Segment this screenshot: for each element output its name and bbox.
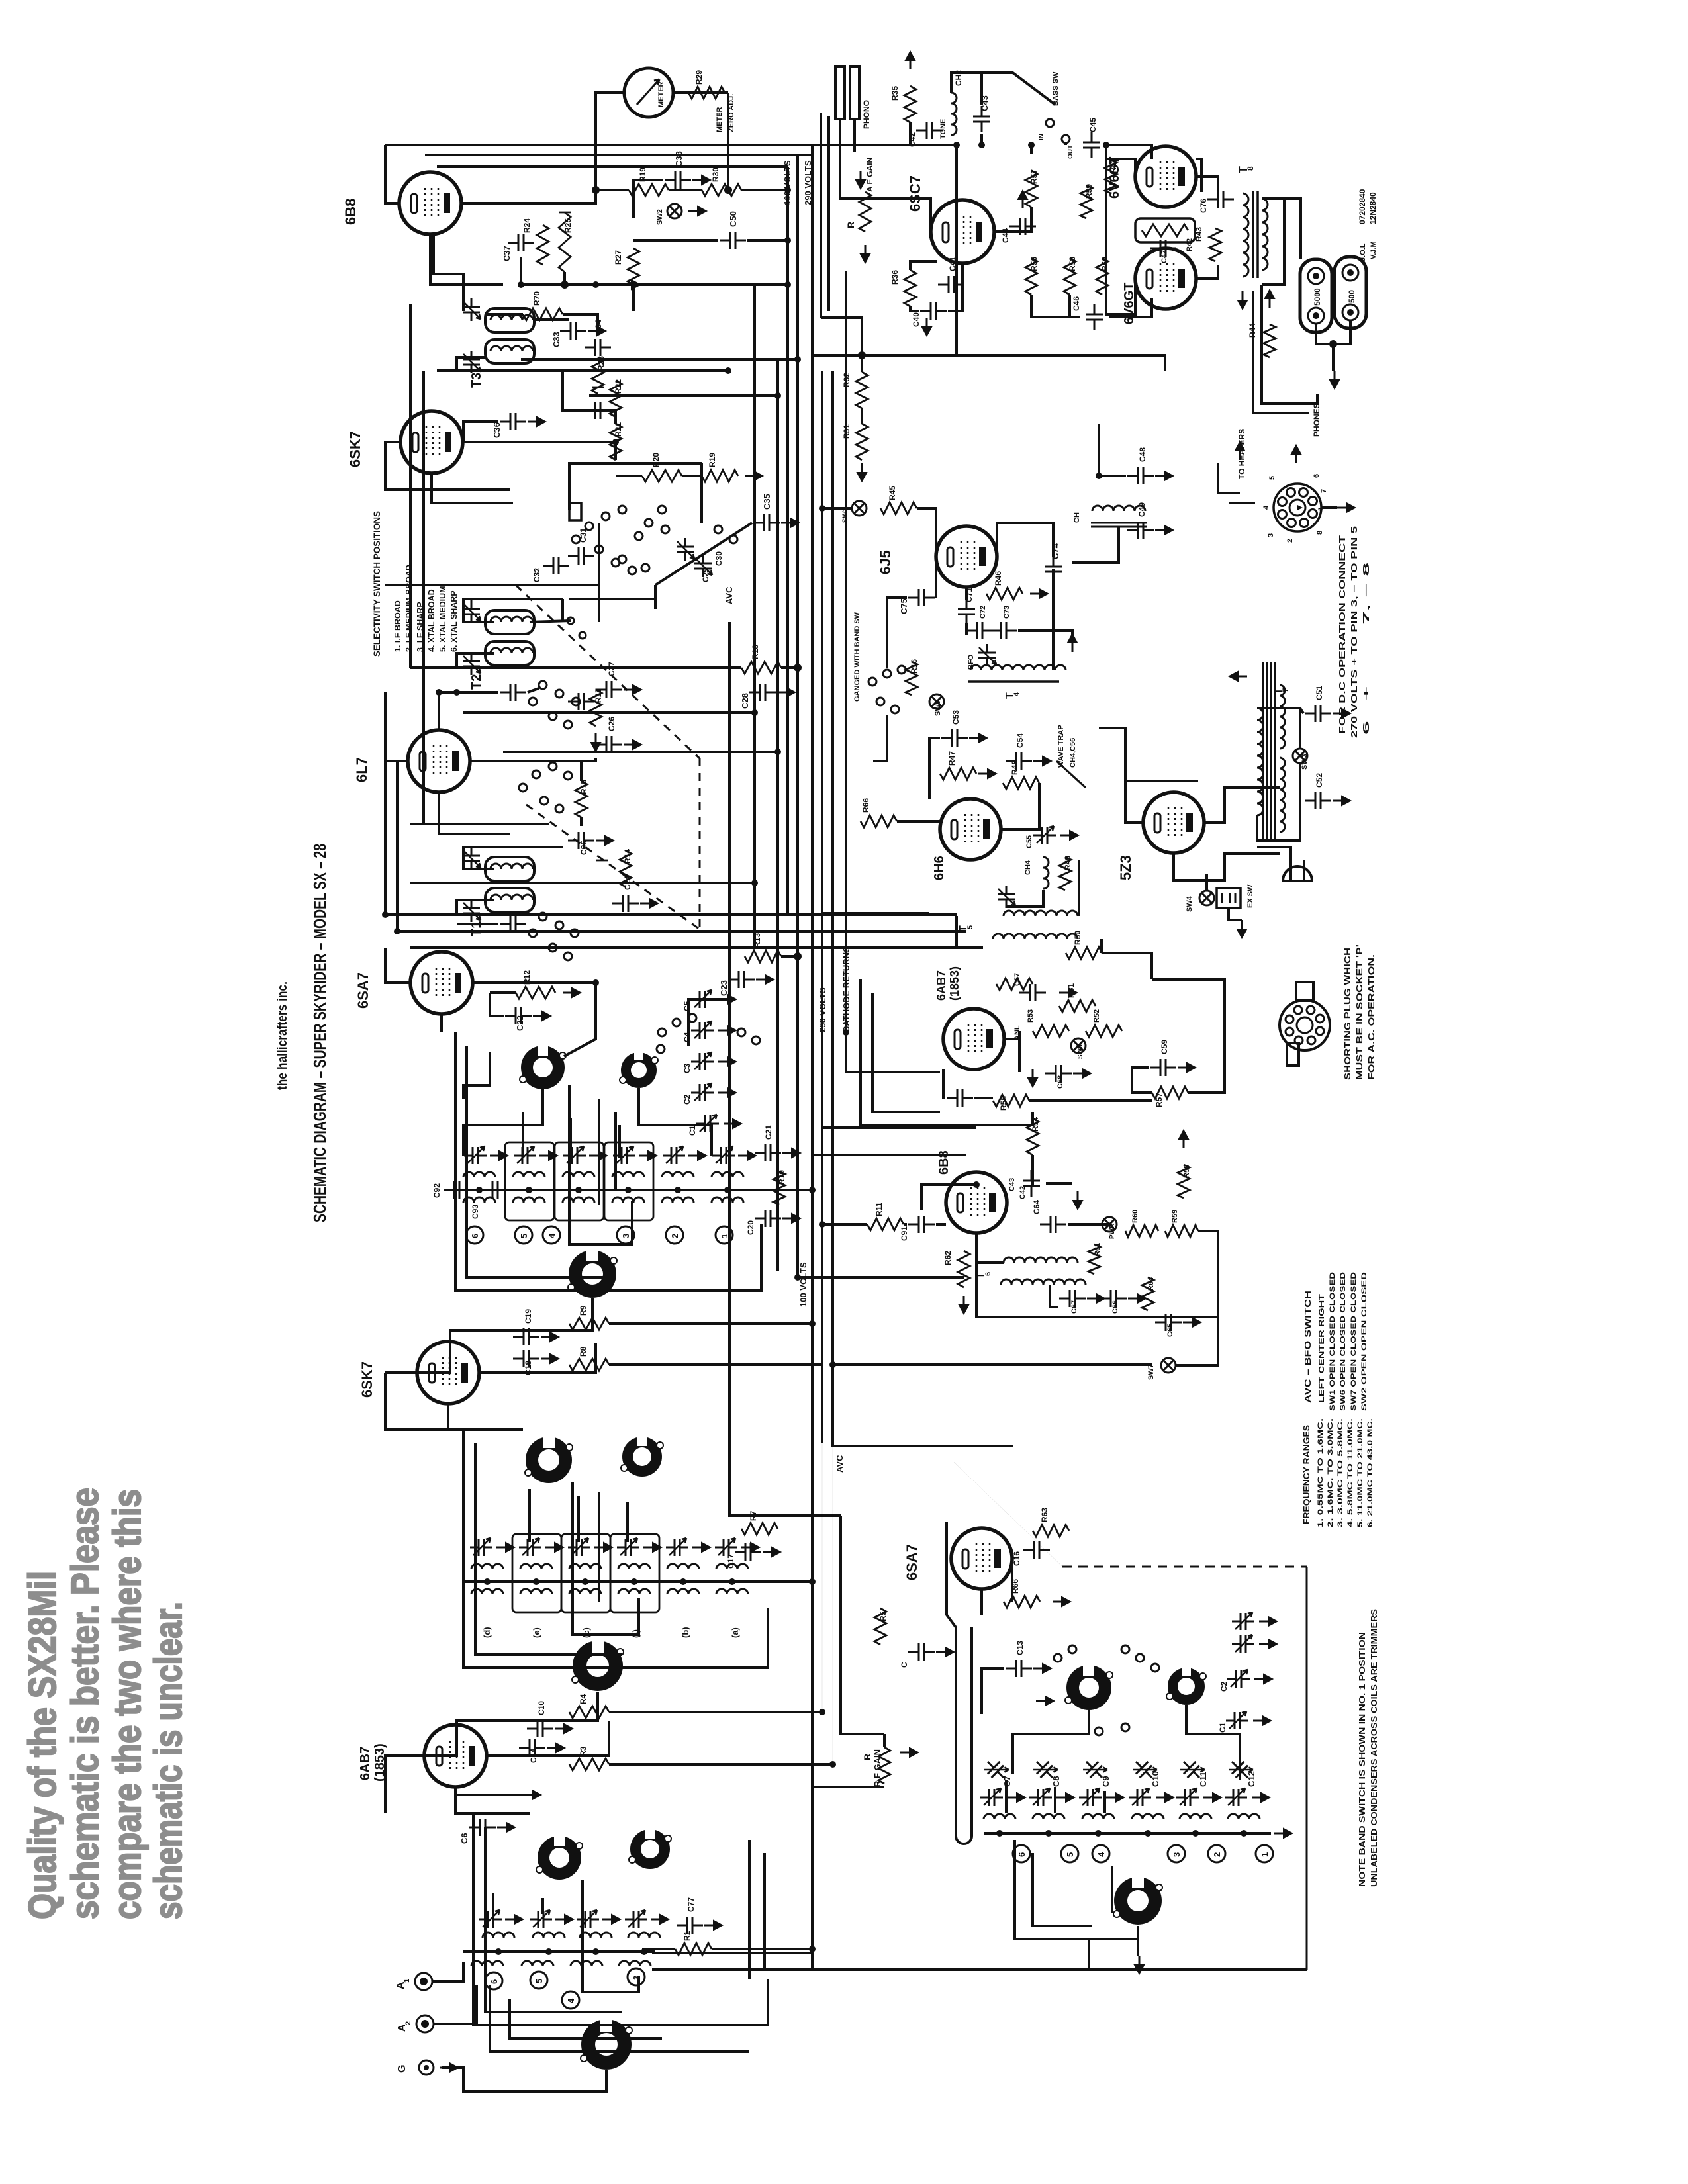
svg-text:METER: METER (657, 81, 665, 107)
junction (592, 186, 600, 194)
dashed gang link v (699, 758, 701, 929)
IF transformer T1 (485, 857, 534, 881)
wire phono to pot (840, 169, 865, 199)
ground (718, 1026, 736, 1035)
svg-text:6SA7: 6SA7 (355, 972, 371, 1009)
ground (1252, 1793, 1270, 1802)
svg-text:R43: R43 (1194, 227, 1203, 242)
capacitor C37 (508, 234, 534, 251)
resistor R33 AF gain pot (859, 192, 871, 232)
wire (980, 134, 983, 145)
junction rail RF (729, 1578, 735, 1585)
wire (910, 261, 937, 270)
switch rotor small T2 (567, 617, 574, 624)
wire (822, 507, 852, 510)
T1 trimmer (463, 847, 481, 870)
capacitor C25 (568, 832, 594, 849)
capacitor C45 (1083, 132, 1100, 158)
wire (596, 189, 629, 191)
tube V6 6AB7 3rd IF (943, 1009, 1004, 1069)
ground (555, 1915, 573, 1924)
bass switch (1046, 119, 1054, 127)
resistor R1 (675, 1943, 712, 1955)
capacitor C91 (908, 1216, 935, 1233)
junction (453, 689, 460, 696)
coil L28 2nd conv secondary (563, 1197, 594, 1203)
ground (1059, 988, 1077, 997)
socket P shorting plug (1280, 1000, 1330, 1050)
ground C33 (588, 326, 606, 336)
svg-text:C9: C9 (1101, 1776, 1111, 1787)
wire (609, 1711, 822, 1713)
svg-text:R60: R60 (1131, 1210, 1139, 1223)
band switch wafer SW osc front (1065, 1661, 1113, 1710)
terminal A1 (415, 1973, 432, 1990)
wire row y1077 (463, 711, 755, 714)
resistor R16 (906, 662, 917, 695)
choke CH4 (1043, 857, 1049, 889)
coil osc 6 (1228, 1814, 1260, 1819)
svg-text:C20: C20 (746, 1220, 755, 1235)
coil osc 4 (1132, 1814, 1164, 1819)
wire (935, 557, 937, 598)
trimmer C4 osc (1232, 1635, 1254, 1653)
capacitor C31 (568, 547, 594, 565)
svg-text:C17: C17 (726, 1554, 735, 1569)
ground (602, 1915, 620, 1924)
wire grid run y884 (385, 584, 516, 586)
svg-text:4. XTAL BROAD: 4. XTAL BROAD (427, 589, 436, 652)
ground (1053, 1597, 1070, 1606)
resistor R55 (993, 1095, 1029, 1107)
svg-text:R56: R56 (1029, 257, 1039, 271)
T2 trimmer (463, 600, 481, 623)
coil RF primary 1 (471, 1564, 503, 1569)
junction (561, 281, 569, 289)
trimmer RF 2 (519, 1538, 541, 1556)
band switch rotor RF (572, 1637, 624, 1691)
wire osc feed2 (1054, 1787, 1056, 1813)
wire 6AB7 k (943, 1069, 945, 1098)
capacitor C17 (735, 1543, 761, 1561)
ground C22 (533, 1011, 551, 1021)
svg-text:R41: R41 (1109, 159, 1118, 173)
wire (1205, 874, 1208, 891)
wire (642, 1948, 675, 1950)
wire bus heater (845, 271, 847, 1032)
wire osc grid (947, 1522, 956, 1627)
wire audio return (814, 145, 957, 355)
wire coil row out (741, 1189, 812, 1191)
capacitor C13 (1006, 1660, 1032, 1677)
wire T8 sec loop (1262, 199, 1284, 285)
svg-text:R46: R46 (994, 571, 1003, 586)
terminal 500 b (1342, 304, 1358, 320)
terminal 500 a (1342, 265, 1358, 281)
capacitor C53 (941, 729, 968, 747)
T7 primary winding (1257, 708, 1263, 815)
svg-text:5: 5 (1268, 476, 1276, 480)
junction rail (526, 1187, 532, 1193)
ground G arrow (440, 2063, 458, 2072)
svg-text:C22: C22 (515, 1015, 525, 1031)
resistor R29 meter shunt (688, 87, 725, 99)
wire T3 to R70 (485, 313, 523, 316)
lamp SW8 (1071, 1038, 1086, 1053)
wire (936, 1223, 946, 1226)
wire coil feed 2 (569, 1118, 572, 1158)
svg-text:C50: C50 (728, 211, 738, 227)
wire (463, 1052, 490, 1099)
svg-text:compare the two where this: compare the two where this (106, 1489, 149, 1919)
capacitor C10b (527, 1720, 553, 1737)
svg-text:2: 2 (404, 2021, 412, 2025)
lamp SW4 (1199, 891, 1214, 905)
junction rail ant (641, 1948, 647, 1955)
wire (521, 257, 565, 285)
padder C7 (982, 1755, 1010, 1784)
junction (1028, 142, 1035, 148)
svg-text:C21: C21 (764, 1125, 773, 1140)
svg-text:C38: C38 (674, 151, 684, 167)
wire heater (1218, 463, 1240, 493)
svg-text:AVC – BFO SWITCH: AVC – BFO SWITCH (1303, 1291, 1313, 1403)
capacitor C21 (755, 1144, 781, 1161)
junction (725, 367, 731, 374)
wire (1011, 1559, 1013, 1602)
svg-text:C32: C32 (532, 568, 541, 582)
wire to 500 term (1284, 199, 1301, 259)
wire (1046, 1182, 1072, 1185)
svg-text:C26: C26 (607, 717, 616, 731)
T3 trimmer (463, 351, 481, 373)
svg-text:R1: R1 (682, 1931, 692, 1941)
ground C36 (528, 417, 545, 426)
RF cell boxes (512, 1534, 561, 1612)
junction (829, 1361, 836, 1368)
svg-text:C10: C10 (537, 1701, 546, 1715)
svg-text:1. 0.55MC TO 1.6MC.: 1. 0.55MC TO 1.6MC. (1317, 1418, 1325, 1527)
svg-text:R42: R42 (1186, 238, 1194, 251)
wire (534, 318, 569, 321)
resistor R9 (569, 1318, 609, 1330)
svg-text:PWR: PWR (1109, 1223, 1116, 1239)
wire bus 290 volts lower (821, 371, 823, 1443)
capacitor C43 (973, 106, 990, 132)
wire 6V6 grid bottom loop (1106, 145, 1135, 314)
resistor R64 (1142, 1277, 1154, 1310)
svg-text:R49: R49 (1063, 856, 1072, 870)
ground (624, 740, 641, 749)
svg-text:R31: R31 (842, 424, 851, 439)
capacitor C16 (1023, 1541, 1050, 1559)
svg-text:5Z3: 5Z3 (1117, 855, 1134, 880)
ground (688, 1151, 706, 1160)
wire loop a (455, 1032, 761, 1291)
svg-text:R59: R59 (1171, 1210, 1179, 1223)
wire row y598 (589, 394, 778, 397)
wire (1132, 1068, 1152, 1093)
trimmer C2 (691, 1083, 714, 1101)
IF transformer T2 (485, 610, 534, 634)
svg-text:C75: C75 (899, 598, 909, 614)
svg-text:SW2: SW2 (656, 209, 664, 225)
wire (1018, 1031, 1021, 1072)
dashed osc box top (1062, 1566, 1307, 1568)
wire long y1245 (410, 823, 549, 825)
terminal A2 (416, 2015, 434, 2032)
wire (1137, 1926, 1139, 1956)
wire (861, 408, 863, 424)
resistor R24 (537, 225, 549, 265)
wire (457, 900, 494, 915)
T3 trimmer (463, 298, 481, 321)
resistor R57b (1152, 1087, 1188, 1099)
power transformer T7 core (1263, 662, 1275, 842)
lamp SW3 (1293, 749, 1307, 763)
svg-text:3: 3 (1172, 1852, 1182, 1857)
R42 C47 coupling (1135, 218, 1195, 242)
coil L29 2nd conv secondary (612, 1197, 644, 1203)
svg-text:6AB7: 6AB7 (935, 970, 948, 1001)
tube V2 6SA7 2nd converter (410, 952, 473, 1014)
capacitor C77 (677, 1917, 703, 1934)
capacitor C18 (513, 1350, 539, 1367)
coil RF primary 5 (667, 1564, 699, 1569)
resistor R13 (745, 950, 781, 962)
wire 6V6 fb (1196, 159, 1201, 192)
svg-text:SW8: SW8 (1077, 1044, 1084, 1059)
svg-text:R20: R20 (651, 453, 661, 467)
capacitor C51 (1305, 705, 1331, 722)
capacitor C14 (519, 1739, 545, 1756)
junction bus (751, 880, 758, 886)
wire long 1745 (812, 1154, 966, 1156)
junction (809, 1187, 816, 1193)
ground (718, 995, 736, 1004)
tube V5 6B8 2nd IF (399, 172, 461, 234)
ground (1259, 1639, 1277, 1649)
svg-text:C13: C13 (1015, 1641, 1025, 1655)
wire to wafer (564, 983, 596, 1056)
svg-text:C8: C8 (1051, 1776, 1061, 1787)
ground C44 (1018, 191, 1027, 208)
svg-text:7: 7 (1281, 688, 1290, 692)
svg-text:ZERO ADJ.: ZERO ADJ. (727, 94, 735, 132)
svg-text:C66: C66 (1111, 1300, 1119, 1314)
svg-text:CATHODE RETURNS: CATHODE RETURNS (841, 946, 851, 1032)
svg-text:R27: R27 (614, 250, 623, 265)
junction rail ant (545, 1948, 552, 1955)
wire 6L7 grid (385, 692, 408, 761)
tube V14 6SA7 oscillator (951, 1528, 1012, 1589)
wire osc cathode (980, 1590, 983, 1615)
resistor R66 (1004, 1596, 1040, 1608)
tube V7 6H6 det/ANL (940, 799, 1001, 860)
svg-text:C45: C45 (1088, 118, 1098, 132)
svg-text:5: 5 (966, 925, 974, 929)
wire (1031, 295, 1080, 317)
svg-text:C6: C6 (459, 1833, 469, 1844)
junction (518, 281, 524, 288)
ground (1073, 1069, 1091, 1078)
wire (455, 1787, 523, 1795)
junction bus (794, 356, 801, 363)
T2 secondary winding (491, 648, 533, 653)
ground SW (688, 206, 706, 216)
capacitor C52 (1305, 792, 1331, 809)
svg-text:R63: R63 (1040, 1508, 1049, 1522)
junction (794, 1274, 801, 1281)
wire ant loop d (490, 1985, 749, 2052)
wire cathode (455, 1787, 530, 1813)
ground (1155, 525, 1173, 535)
svg-text:CH4: CH4 (1024, 860, 1032, 875)
capacitor C72 (966, 622, 993, 639)
svg-text:SW6 OPEN CLOSED CLOSED: SW6 OPEN CLOSED CLOSED (1339, 1272, 1347, 1411)
junction rail RF (680, 1578, 686, 1585)
wire (580, 761, 583, 781)
wire (654, 585, 657, 609)
ground (1060, 831, 1078, 840)
svg-text:schematic is unclear.: schematic is unclear. (147, 1602, 190, 1919)
trimmer osc 5 (1176, 1788, 1199, 1806)
coil RF secondary 6 (716, 1589, 748, 1594)
svg-text:LEFT CENTER RIGHT: LEFT CENTER RIGHT (1318, 1294, 1326, 1403)
svg-text:R8: R8 (579, 1346, 588, 1357)
svg-text:METER: METER (716, 107, 724, 132)
capacitor C43b (1023, 1170, 1040, 1197)
wire ant loop e (510, 1999, 662, 2038)
ground (545, 1543, 563, 1552)
T6 secondary (1001, 1279, 1086, 1285)
band switch wafer SW RF rear (621, 1433, 663, 1477)
coil ant secondary 4 (619, 1961, 651, 1966)
coil ant primary 3 (580, 1933, 612, 1938)
ground 6AB7 (1028, 1069, 1037, 1087)
wire trimmer feed (688, 999, 729, 1046)
ground (640, 899, 658, 908)
wire (929, 738, 940, 774)
resistor R57 (1025, 171, 1037, 207)
wire (741, 189, 788, 191)
svg-text:R55: R55 (999, 1096, 1008, 1111)
tube V8 6J5 BFO (936, 526, 997, 587)
padder C12 (1226, 1755, 1254, 1784)
wire vert x1132 (748, 1840, 751, 1979)
wire bottom long (652, 1968, 1307, 1971)
svg-text:R19: R19 (708, 453, 717, 467)
wire bus x1175 (776, 359, 779, 1271)
svg-text:6SK7: 6SK7 (359, 1361, 375, 1398)
padder C10 (1130, 1755, 1158, 1784)
wire 5Z3 filament (1174, 853, 1280, 880)
junction (592, 281, 599, 288)
svg-text:R9: R9 (579, 1305, 588, 1316)
resistor R36 (904, 270, 916, 306)
T7 HV winding bottom (1280, 758, 1285, 832)
wire plate bus top (385, 144, 957, 146)
wire long link 3 (410, 946, 983, 949)
svg-text:C19: C19 (524, 1309, 533, 1324)
svg-text:C5: C5 (682, 1001, 692, 1011)
svg-text:2: 2 (670, 1234, 680, 1238)
ground pot (861, 245, 870, 263)
trimmer C81 2nd conv (514, 1146, 536, 1164)
wire T5 (1078, 860, 1080, 916)
wire ch1 (1072, 527, 1119, 563)
svg-text:6SA7: 6SA7 (904, 1544, 920, 1580)
wire long 2062 (833, 1363, 1152, 1366)
ground R46 (1030, 589, 1048, 598)
resistor R53 (1033, 1025, 1069, 1037)
phones jack (1291, 394, 1317, 413)
svg-text:C47: C47 (1160, 250, 1168, 263)
wire rotor RF to 6AB7 (424, 1692, 598, 1756)
wire wafer2 to coils (639, 1088, 712, 1156)
ground osc (1036, 1696, 1054, 1706)
junction rail (675, 1187, 681, 1193)
wire xtal (569, 463, 599, 510)
svg-text:R58: R58 (1183, 1165, 1191, 1178)
svg-text:6AB7: 6AB7 (358, 1747, 373, 1780)
svg-text:R14: R14 (623, 849, 632, 864)
ground (497, 1823, 515, 1832)
svg-text:4: 4 (1096, 1852, 1106, 1857)
wire (1102, 953, 1152, 979)
svg-text:6: 6 (1313, 474, 1321, 478)
svg-text:R12: R12 (522, 970, 532, 985)
wire 6V6b plate to T8 (1196, 265, 1218, 279)
wire coil feed 3 (618, 1125, 621, 1158)
svg-text:C57: C57 (1013, 973, 1021, 986)
svg-text:C4: C4 (682, 1032, 692, 1042)
T1 trimmer (463, 899, 481, 922)
svg-text:(a): (a) (730, 1627, 740, 1638)
ground (756, 975, 774, 984)
svg-text:C18: C18 (524, 1361, 533, 1375)
wire grid loop (385, 1373, 448, 1430)
ground (1128, 1294, 1146, 1303)
choke CH1 (1092, 506, 1145, 511)
junction rail (575, 1187, 582, 1193)
coil RF primary 3 (569, 1564, 601, 1569)
capacitor T1 tune (500, 915, 526, 933)
svg-text:R32: R32 (842, 373, 851, 387)
svg-text:R64: R64 (1147, 1277, 1155, 1291)
capacitor C54 (1006, 752, 1032, 770)
T8 secondary (1262, 199, 1268, 270)
junction (1329, 340, 1337, 348)
svg-text:C16: C16 (1012, 1551, 1021, 1566)
wire bus x1140 (753, 285, 756, 946)
junction (973, 1181, 980, 1188)
wire long link 2 (397, 930, 966, 933)
ground (692, 1543, 710, 1552)
coil osc 1 (984, 1814, 1015, 1819)
svg-text:2: 2 (1286, 539, 1294, 543)
wire (929, 230, 932, 233)
svg-text:TO HEATERS: TO HEATERS (1237, 429, 1246, 479)
ground ex sw (1237, 920, 1246, 938)
svg-text:1. I.F BROAD: 1. I.F BROAD (393, 600, 402, 652)
svg-text:R59: R59 (1084, 184, 1094, 199)
resistor R60b (1125, 1225, 1158, 1237)
wire T2 top (463, 599, 563, 622)
wire loop d (598, 1099, 600, 1205)
wire phono shield b (827, 116, 830, 311)
wire long b (846, 1032, 940, 1072)
